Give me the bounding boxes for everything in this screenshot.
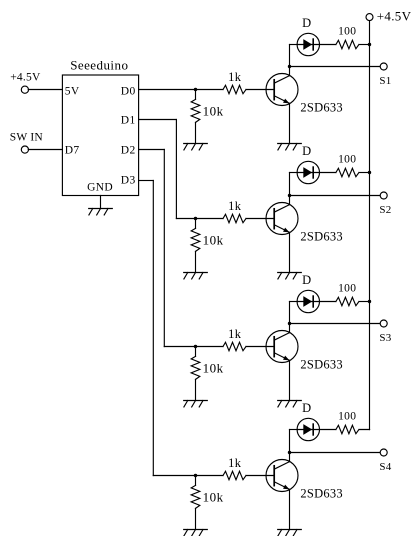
svg-text:1k: 1k (228, 199, 242, 213)
svg-text:D3: D3 (121, 175, 136, 187)
svg-text:S4: S4 (379, 461, 391, 473)
svg-text:100: 100 (338, 26, 356, 38)
svg-text:100: 100 (338, 154, 356, 166)
svg-text:S2: S2 (379, 204, 391, 216)
svg-text:D: D (302, 273, 311, 287)
svg-text:+4.5V: +4.5V (10, 72, 41, 84)
svg-text:10k: 10k (203, 490, 224, 505)
svg-text:D0: D0 (121, 86, 136, 98)
svg-text:10k: 10k (203, 233, 224, 248)
svg-text:100: 100 (338, 283, 356, 295)
svg-text:GND: GND (87, 182, 113, 194)
svg-text:10k: 10k (203, 104, 224, 119)
svg-text:D: D (302, 16, 311, 30)
svg-text:1k: 1k (228, 456, 242, 470)
svg-text:5V: 5V (65, 86, 80, 98)
svg-text:S1: S1 (379, 75, 391, 87)
svg-text:S3: S3 (379, 332, 391, 344)
svg-text:Seeeduino: Seeeduino (70, 58, 128, 73)
svg-text:+4.5V: +4.5V (377, 8, 412, 23)
svg-text:D1: D1 (121, 115, 136, 127)
svg-text:2SD633: 2SD633 (300, 358, 342, 372)
svg-text:D: D (302, 401, 311, 415)
svg-text:2SD633: 2SD633 (300, 101, 342, 115)
svg-text:10k: 10k (203, 361, 224, 376)
svg-text:D7: D7 (65, 145, 80, 157)
svg-text:1k: 1k (228, 70, 242, 84)
svg-text:SW IN: SW IN (10, 131, 44, 143)
svg-text:D2: D2 (121, 145, 136, 157)
svg-text:2SD633: 2SD633 (300, 230, 342, 244)
svg-text:1k: 1k (228, 327, 242, 341)
svg-text:100: 100 (338, 411, 356, 423)
svg-text:2SD633: 2SD633 (300, 487, 342, 501)
svg-text:D: D (302, 144, 311, 158)
